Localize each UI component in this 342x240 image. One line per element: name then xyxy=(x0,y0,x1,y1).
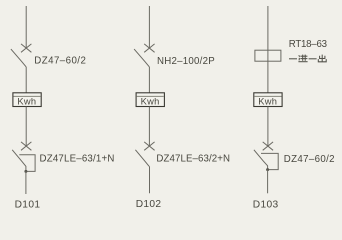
svg-text:Kwh: Kwh xyxy=(17,97,36,107)
circuit breaker contact X (DZ47-60/2 top contact) xyxy=(21,44,31,52)
kilowatt-hour meter Kwh box xyxy=(254,93,282,107)
residual-current trip loop (DZ47-60/2) xyxy=(261,153,278,169)
wire: outgoing drop to D102 xyxy=(149,166,151,193)
char jin xyxy=(298,55,307,62)
wire: incoming drop, column 2 xyxy=(148,6,150,48)
svg-text:D103: D103 xyxy=(253,199,279,210)
char yi xyxy=(289,58,297,60)
RCBO contact X (DZ47LE-63/1+N) xyxy=(21,142,31,150)
RCBO blade (DZ47-60/2) xyxy=(254,150,268,170)
RCBO blade (DZ47LE-63/1+N) xyxy=(12,150,26,172)
wire: meter to lower breaker xyxy=(267,107,269,146)
wire: outgoing drop to D103 xyxy=(267,170,269,194)
RCBO blade (DZ47LE-63/2+N) xyxy=(135,150,149,167)
residual-current trip loop (DZ47LE-63/1+N) xyxy=(19,155,35,172)
wire: incoming drop, column 1 xyxy=(25,6,27,48)
svg-text:Kwh: Kwh xyxy=(258,97,277,107)
svg-text:RT18–63: RT18–63 xyxy=(289,39,327,50)
wire: outgoing drop to D101 xyxy=(25,171,27,194)
char chu xyxy=(318,55,326,62)
fuse RT18-63 xyxy=(255,50,281,61)
junction dot xyxy=(266,168,269,171)
svg-text:DZ47LE–63/1+N: DZ47LE–63/1+N xyxy=(40,154,115,165)
wire: breaker to meter xyxy=(148,67,150,93)
svg-text:D101: D101 xyxy=(15,199,41,210)
RCBO contact X (DZ47-60/2) xyxy=(263,142,273,150)
value label (Chinese) one-in one-out xyxy=(289,55,326,62)
junction dot xyxy=(24,170,27,173)
wire: incoming drop, column 3 xyxy=(267,6,269,93)
circuit breaker blade (NH2-100/2P) xyxy=(134,49,149,67)
svg-text:NH2–100/2P: NH2–100/2P xyxy=(157,56,215,67)
svg-text:Kwh: Kwh xyxy=(141,97,160,107)
circuit breaker contact X (NH2-100/2P) xyxy=(144,44,154,52)
wire: meter to lower breaker xyxy=(148,107,150,146)
wire: breaker to meter xyxy=(25,67,27,93)
svg-text:D102: D102 xyxy=(136,199,162,210)
svg-text:DZ47LE–63/2+N: DZ47LE–63/2+N xyxy=(156,154,230,165)
wire: meter to lower breaker xyxy=(25,107,27,146)
circuit breaker blade (DZ47-60/2) xyxy=(11,49,26,67)
svg-text:DZ47–60/2: DZ47–60/2 xyxy=(34,55,86,66)
char yi xyxy=(309,58,317,60)
svg-text:DZ47–60/2: DZ47–60/2 xyxy=(284,154,335,165)
RCBO contact X (DZ47LE-63/2+N) xyxy=(144,142,154,150)
kilowatt-hour meter Kwh box xyxy=(136,93,164,107)
kilowatt-hour meter Kwh box xyxy=(13,93,41,107)
